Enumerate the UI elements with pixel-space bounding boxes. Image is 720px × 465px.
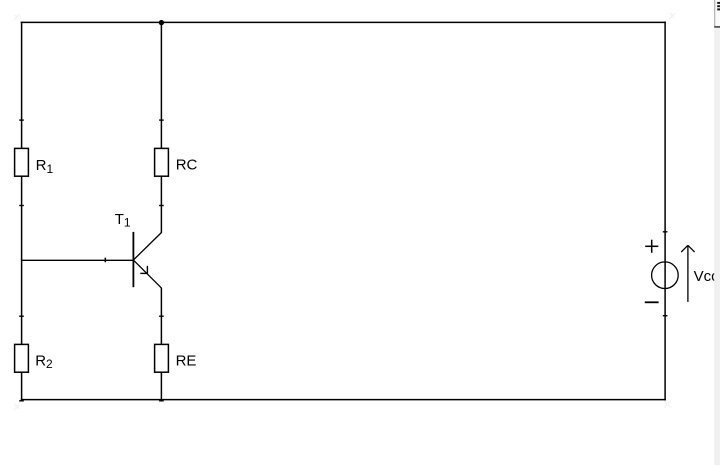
wire: left rail (21, 22, 23, 401)
label R2 (35, 352, 53, 371)
resistor RC (155, 120, 169, 205)
junction dot: node at top rail / RC branch (159, 20, 164, 25)
scrollbar track strip (right edge) (714, 28, 720, 465)
wire: right rail (664, 22, 666, 401)
svg-text:RE: RE (176, 352, 197, 369)
transistor T1 (133, 232, 161, 288)
resistor RE (155, 316, 169, 401)
pin tick: T1 base lead end (104, 258, 106, 263)
wire: bottom rail (21, 399, 666, 401)
arrow: Vcc voltage direction (681, 245, 694, 302)
faint ghost artifacts (decorative) (14, 13, 675, 410)
wire: RE to bottom rail (160, 372, 162, 399)
resistor R1 (15, 120, 29, 205)
voltage source Vcc (652, 232, 679, 316)
label R1 (36, 157, 54, 176)
wire: base wire from left rail to T1 (22, 259, 134, 261)
wire: top rail (21, 21, 666, 23)
resistor R2 (15, 316, 29, 401)
svg-text:RC: RC (176, 157, 198, 174)
wire: top rail to RC (160, 22, 162, 148)
label RE (176, 352, 197, 369)
label T1 (115, 211, 131, 230)
minus sign of Vcc source (645, 301, 659, 303)
label RC (176, 157, 198, 174)
label Vcc (694, 268, 720, 285)
scrollbar top widget (cut off) (714, 0, 720, 27)
wire: T1 emitter to RE (160, 288, 162, 344)
plus sign of Vcc source (645, 240, 658, 253)
wire: RC to T1 collector (160, 176, 162, 233)
